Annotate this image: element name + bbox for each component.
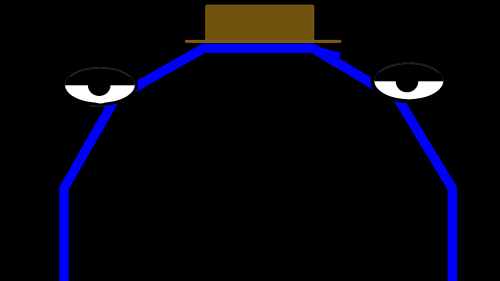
wire: faint covered edge of line under left eye (90, 105, 107, 107)
right eye (372, 60, 446, 101)
hat crown (206, 5, 314, 42)
hat brim (186, 40, 340, 43)
wire: head outline (blue polyline: left shoulder, face sides, under-hat top) (64, 48, 452, 281)
left eye (63, 65, 137, 104)
wire: overlap stub under right brim end (310, 49, 340, 57)
